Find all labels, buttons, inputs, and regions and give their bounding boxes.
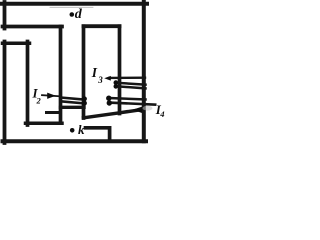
svg-text:2: 2 [36, 95, 42, 105]
svg-text:I: I [91, 65, 98, 80]
svg-text:4: 4 [159, 109, 164, 119]
svg-text:3: 3 [97, 75, 103, 85]
svg-text:k: k [78, 122, 85, 137]
svg-text:d: d [75, 7, 83, 22]
